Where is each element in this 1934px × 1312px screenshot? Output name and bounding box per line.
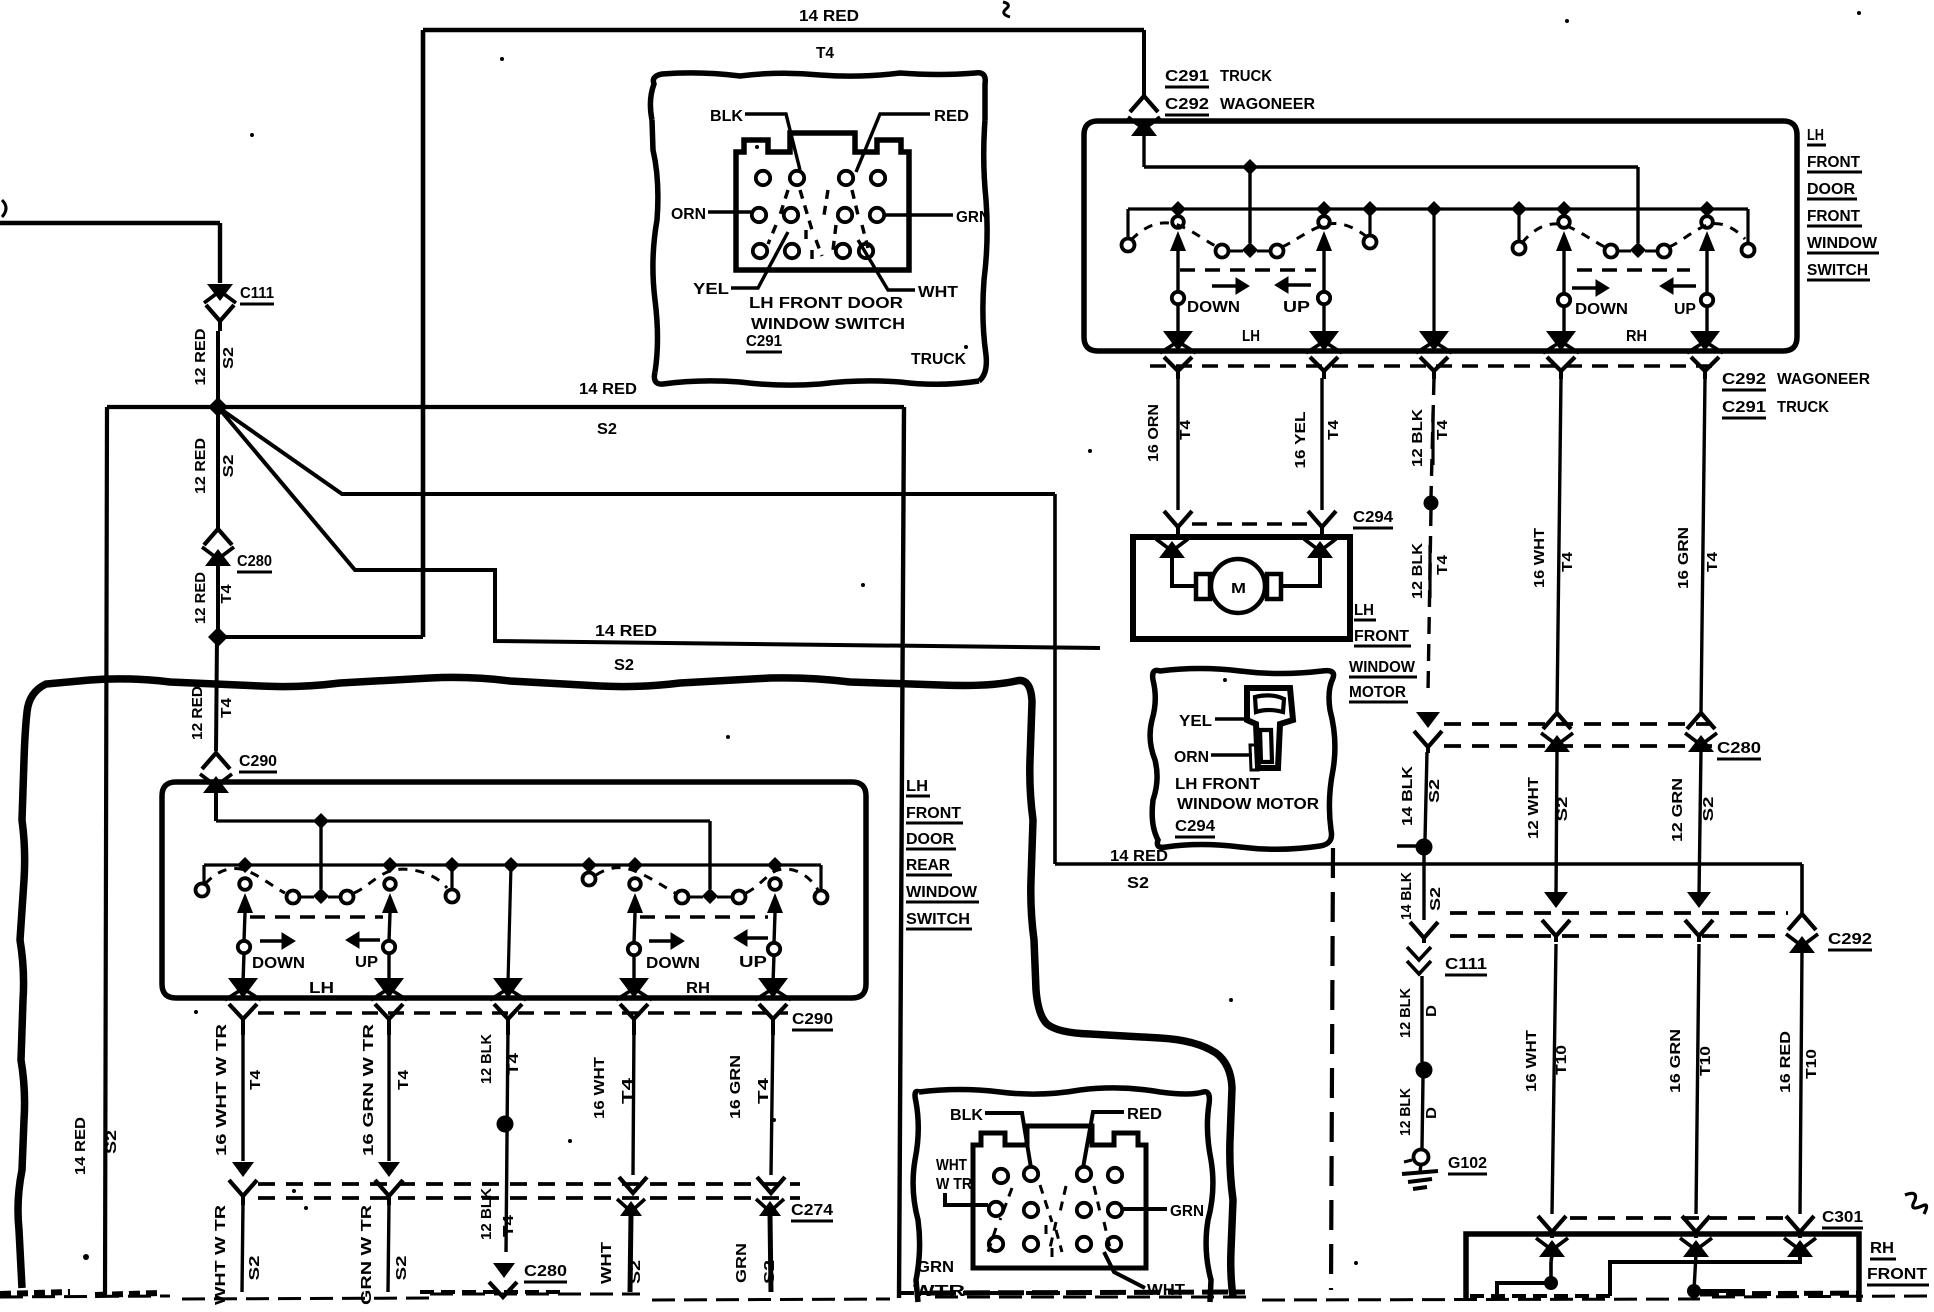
svg-text:WINDOW: WINDOW [906, 884, 978, 901]
svg-text:S2: S2 [220, 455, 237, 478]
pin circles row 2 [752, 208, 766, 222]
RH DOWN direction arrow [1572, 286, 1598, 289]
svg-text:LH: LH [1807, 127, 1824, 144]
svg-text:S2: S2 [614, 657, 634, 674]
LH DOWN direction arrow [1212, 284, 1238, 287]
svg-text:RH: RH [1870, 1240, 1894, 1257]
wire 14 RED horizontal bus y=407 [107, 405, 904, 409]
svg-text:GRN: GRN [956, 209, 990, 226]
svg-text:14 RED: 14 RED [1110, 848, 1168, 865]
dashed travel line LH [1180, 268, 1316, 271]
splice dot on 12 BLK (rear) [497, 1116, 514, 1133]
connector C274 arrow up (WHT) [620, 1201, 642, 1216]
center output wire 12 BLK (rear) [508, 865, 511, 983]
motor wiring left [1172, 555, 1196, 586]
connector C280 (left) female chevron [204, 529, 232, 545]
wire 16 WHT T10 [1552, 944, 1556, 1214]
wiper dashed arc LH right [1282, 223, 1367, 247]
wire 14 BLK S2 crossing 14 RED line [1422, 855, 1425, 920]
LH outer right stub contact [1368, 209, 1371, 235]
svg-text:UP: UP [355, 954, 378, 971]
svg-text:C290: C290 [792, 1011, 833, 1028]
wire 12 RED S2 segment [216, 331, 220, 402]
svg-text:16 GRN: 16 GRN [1675, 527, 1692, 589]
svg-text:T4: T4 [619, 1077, 636, 1104]
svg-text:C291: C291 [1722, 399, 1766, 416]
connector C111 (top left) female chevron [206, 305, 234, 321]
squiggle mark top [1003, 2, 1010, 17]
connector C111 (top left) male arrow [207, 284, 233, 301]
dashed connector row below box [1150, 364, 1720, 368]
junction dot on bus [1242, 159, 1258, 175]
svg-text:UP: UP [739, 954, 767, 971]
wire 12 BLK T4 center (rear) [506, 1025, 508, 1252]
svg-text:16 WHT: 16 WHT [1523, 1030, 1540, 1092]
RH rocker center contacts (rear) [676, 891, 689, 904]
svg-text:12 BLK: 12 BLK [478, 1034, 495, 1084]
wire 16 GRN W TR [387, 1025, 390, 1161]
svg-text:FRONT: FRONT [1354, 628, 1409, 645]
svg-text:SWITCH: SWITCH [1807, 262, 1868, 279]
svg-text:RED: RED [934, 108, 969, 125]
svg-text:DOWN: DOWN [252, 955, 305, 972]
wire 16 GRN T4 (rear RH up) [771, 1025, 773, 1175]
svg-text:16 GRN: 16 GRN [1667, 1029, 1684, 1093]
connector C290 female chevron [202, 753, 230, 769]
switch supply bus [1144, 165, 1638, 168]
svg-text:C294: C294 [1353, 509, 1393, 526]
svg-text:ORN: ORN [671, 206, 706, 223]
svg-text:FRONT: FRONT [1867, 1266, 1927, 1283]
LH rocker center post [1248, 167, 1251, 243]
svg-text:C292: C292 [1722, 371, 1766, 388]
rear switch supply bus [216, 819, 710, 822]
splice junction at top 14 RED riser [208, 627, 228, 647]
motor wiring right [1281, 555, 1320, 586]
wire 14 RED riser from top [421, 30, 426, 637]
connector C292 arrow down on 12 WHT [1544, 892, 1568, 908]
svg-text:T4: T4 [1559, 551, 1576, 572]
connector C301 chevrons [1538, 1216, 1566, 1232]
svg-text:FRONT: FRONT [906, 805, 961, 822]
svg-text:C280: C280 [524, 1263, 567, 1280]
svg-text:C274: C274 [791, 1202, 833, 1219]
splice dot on 12 BLK [1424, 496, 1439, 511]
wire 12 RED S2 segment below junction [216, 407, 220, 528]
LH UP post contact and arrow [1318, 216, 1330, 228]
wavy border box bottom connector [913, 1091, 920, 1302]
dashed rows C292 [1450, 911, 1788, 915]
wire 12 RED T4 to C290 [216, 637, 217, 751]
wire 14 RED top horizontal [423, 28, 1144, 33]
wire 14 RED S2 left vertical drop [105, 407, 107, 1297]
svg-text:TRUCK: TRUCK [1220, 68, 1272, 85]
RH UP circle contact [1701, 294, 1713, 306]
svg-text:S2: S2 [1700, 797, 1717, 822]
wire 12 BLK dashed from center output [1431, 378, 1434, 497]
svg-text:C291: C291 [1165, 68, 1209, 85]
row end stub right with contact [1746, 209, 1749, 243]
wire WHT W TR S2 below C274 [242, 1203, 243, 1292]
svg-text:T4: T4 [816, 45, 834, 62]
svg-text:16 WHT: 16 WHT [1531, 528, 1548, 588]
wiper dashed arc LH right (rear) [354, 869, 447, 893]
wire 14 RED S2 vertical x=1055 [1053, 494, 1057, 864]
svg-text:T4: T4 [1434, 554, 1451, 575]
motor brush left [1196, 574, 1210, 599]
svg-text:YEL: YEL [693, 281, 729, 298]
wire 12 BLK D segment [1420, 976, 1423, 1062]
motor armature circle M [1211, 559, 1265, 613]
svg-text:12 BLK: 12 BLK [1397, 988, 1414, 1038]
svg-text:LH FRONT: LH FRONT [1175, 776, 1260, 793]
connector C274 chevron (GRN) [375, 1180, 403, 1196]
RH rocker center contacts [1605, 245, 1618, 258]
wire 12 RED feed from left edge [0, 221, 220, 225]
connector row C290 chevrons below rear box [229, 1004, 257, 1019]
connector face body (bottom) [973, 1126, 1146, 1268]
LH rocker center contacts (rear) [287, 891, 300, 904]
junction dot on rear bus [313, 813, 329, 829]
wiper dashed arc RH left (rear) [596, 868, 675, 893]
svg-text:S2: S2 [597, 421, 617, 438]
svg-text:WINDOW SWITCH: WINDOW SWITCH [751, 316, 905, 333]
LH UP circle contact [1318, 292, 1330, 304]
connector C280 arrow down on 12 BLK [1416, 712, 1440, 728]
RH UP circle contact (rear) [768, 943, 780, 955]
RH DOWN post contact and arrow [1558, 216, 1570, 228]
svg-text:T4: T4 [505, 1052, 522, 1075]
pin circles row 1 [756, 171, 770, 185]
svg-text:BLK: BLK [950, 1107, 983, 1124]
connector C280 bottom arrow and chevron [493, 1263, 515, 1278]
svg-text:12 GRN: 12 GRN [1669, 778, 1686, 842]
svg-text:T4: T4 [218, 584, 235, 604]
svg-text:GRN W TR: GRN W TR [358, 1205, 375, 1305]
svg-text:16 GRN W TR: 16 GRN W TR [360, 1024, 377, 1156]
svg-text:C290: C290 [239, 753, 277, 770]
svg-text:WHT W TR: WHT W TR [212, 1205, 229, 1305]
RH DOWN circle contact [1558, 294, 1570, 306]
connector C274 chevron (16 GRN) [757, 1177, 785, 1193]
svg-text:WINDOW: WINDOW [1807, 235, 1878, 252]
motor plug drawing [1247, 688, 1293, 768]
wire 16 YEL T4 [1320, 378, 1323, 510]
svg-text:T4: T4 [500, 1214, 517, 1237]
connector C280 chevron on 16 WHT wire [1543, 713, 1571, 729]
row junction dots [1170, 201, 1186, 217]
dashed travel line LH (rear) [250, 915, 383, 918]
svg-text:S2: S2 [103, 1130, 120, 1154]
wire 12 BLK dashed continues [1428, 509, 1431, 692]
output arrows through rear box bottom [228, 978, 258, 998]
splice junction S2 [208, 397, 228, 417]
svg-text:REAR: REAR [906, 857, 950, 874]
arrows into RH front box [1539, 1240, 1565, 1257]
svg-text:ORN: ORN [1174, 749, 1209, 766]
dashed connector row C290 [258, 1011, 788, 1015]
svg-text:S2: S2 [246, 1256, 263, 1281]
svg-text:T4: T4 [1177, 419, 1194, 440]
svg-text:T4: T4 [1325, 419, 1342, 440]
svg-text:12 BLK: 12 BLK [1409, 543, 1426, 599]
svg-text:RH: RH [1626, 328, 1647, 345]
wire 16 WHT W TR [241, 1025, 244, 1161]
LH DOWN post contact and arrow [1172, 216, 1184, 228]
svg-text:C111: C111 [240, 285, 274, 302]
svg-text:WINDOW MOTOR: WINDOW MOTOR [1177, 796, 1319, 813]
svg-text:SWITCH: SWITCH [906, 911, 970, 928]
wire bundle dashes inside bottom connector [988, 1185, 1110, 1260]
svg-text:T10: T10 [1553, 1045, 1570, 1075]
svg-text:14 RED: 14 RED [72, 1117, 89, 1175]
LH rocker center post (rear) [319, 821, 322, 889]
svg-text:WAGONEER: WAGONEER [1220, 96, 1315, 113]
wire 12 BLK D to ground [1422, 1078, 1423, 1148]
wire 14 RED S2 horizontal y=864 [1055, 862, 1802, 866]
RH UP direction arrow [1671, 284, 1696, 287]
dashed rows C280 [1444, 722, 1712, 726]
svg-text:UP: UP [1283, 299, 1310, 316]
pin circles row 2 (bottom connector) [989, 1202, 1003, 1216]
svg-text:WHT: WHT [598, 1242, 615, 1284]
svg-text:14 RED: 14 RED [595, 623, 657, 640]
wire 14 RED S2 drop to C292 [1800, 864, 1804, 913]
male arrow entering switch box [1131, 119, 1157, 136]
svg-text:14 BLK: 14 BLK [1399, 766, 1416, 826]
svg-text:FRONT: FRONT [1807, 208, 1860, 225]
svg-text:DOOR: DOOR [906, 831, 954, 848]
svg-text:S2: S2 [1554, 797, 1571, 822]
wire 16 RED T10 [1800, 950, 1802, 1214]
svg-text:S2: S2 [761, 1260, 778, 1284]
svg-text:WAGONEER: WAGONEER [1777, 371, 1870, 388]
svg-text:T10: T10 [1697, 1046, 1714, 1076]
svg-text:S2: S2 [627, 1260, 644, 1284]
svg-text:C280: C280 [237, 553, 272, 570]
svg-text:16 RED: 16 RED [1777, 1031, 1794, 1093]
connector face C291 body [736, 133, 909, 270]
svg-text:M: M [1231, 580, 1246, 597]
dashed travel line RH (rear) [640, 915, 768, 918]
svg-text:LH: LH [906, 778, 928, 795]
scan noise bottom edge [0, 1294, 1930, 1300]
svg-text:14 BLK: 14 BLK [1398, 872, 1415, 920]
svg-text:C294: C294 [1175, 818, 1215, 835]
scan noise heavy blobs [0, 1292, 160, 1295]
svg-text:WHT: WHT [936, 1157, 967, 1174]
svg-text:12 BLK: 12 BLK [478, 1188, 495, 1240]
RH UP post contact and arrow (rear) [769, 878, 781, 890]
motor brush right [1267, 574, 1281, 599]
svg-text:12 WHT: 12 WHT [1525, 777, 1542, 839]
row end stub right with contact (rear) [819, 865, 822, 890]
svg-text:12 RED: 12 RED [192, 572, 209, 624]
row end stub left with contact [202, 865, 205, 883]
LH DOWN post contact and arrow (rear) [239, 878, 251, 890]
splice dot on 14 BLK [1397, 844, 1416, 847]
svg-text:C301: C301 [1822, 1209, 1863, 1226]
LH UP post contact and arrow (rear) [384, 878, 396, 890]
switch pin row [1128, 207, 1748, 210]
svg-text:DOOR: DOOR [1807, 181, 1855, 198]
wire diagonal branch to 14 RED S2 line [222, 410, 1055, 494]
svg-text:MOTOR: MOTOR [1349, 684, 1406, 701]
svg-text:W TR: W TR [936, 1176, 972, 1193]
svg-text:LH: LH [309, 980, 334, 997]
wire 16 WHT T4 (rear RH down) [633, 1025, 634, 1175]
internal wiring RH front box [1551, 1254, 1552, 1262]
dashed travel line RH [1577, 268, 1690, 271]
svg-text:DOWN: DOWN [646, 955, 700, 972]
svg-text:BLK: BLK [710, 108, 743, 125]
svg-text:D: D [1423, 1005, 1440, 1017]
connector C280 chevron on 16 GRN wire [1687, 713, 1715, 729]
svg-text:16 WHT: 16 WHT [591, 1057, 608, 1119]
thick wavy routed wire [18, 677, 1233, 1297]
LH UP circle contact (rear) [383, 941, 395, 953]
svg-text:12 RED: 12 RED [192, 438, 209, 494]
svg-text:T4: T4 [395, 1069, 412, 1090]
svg-text:S2: S2 [1427, 887, 1444, 911]
wire 16 GRN T4 long [1701, 378, 1705, 712]
wiper dashed arc RH left [1522, 224, 1605, 247]
svg-text:T4: T4 [1434, 419, 1451, 440]
svg-text:GRN: GRN [1170, 1203, 1204, 1220]
LH UP direction arrow (rear) [357, 938, 380, 941]
wire long vertical from 14 RED bus to bottom [899, 407, 904, 1298]
svg-text:UP: UP [1674, 301, 1696, 318]
wire 16 WHT T4 long [1557, 378, 1561, 712]
wire junction to riser x=423 [218, 635, 423, 639]
svg-text:C292: C292 [1828, 931, 1872, 948]
svg-text:S2: S2 [393, 1256, 410, 1281]
LH rocker center contacts [1216, 245, 1229, 258]
connector C280 arrow up on 12 WHT [1544, 735, 1570, 752]
dashed wire from motor area x=1332 [1331, 848, 1333, 1290]
pin circles row 3 (bottom connector) [989, 1237, 1003, 1251]
RH DOWN post contact and arrow (rear) [629, 878, 641, 890]
LH outer right stub contact (rear) [450, 865, 453, 889]
svg-text:DOWN: DOWN [1187, 299, 1240, 316]
dashed row C294 [1192, 522, 1310, 526]
dashed rows C274 [258, 1182, 800, 1186]
wire 16 ORN T4 [1176, 378, 1179, 510]
RH UP direction arrow (rear) [745, 936, 768, 939]
center output wire 12 BLK inside box [1432, 209, 1435, 337]
svg-text:DOWN: DOWN [1575, 301, 1628, 318]
svg-text:16 YEL: 16 YEL [1292, 412, 1309, 469]
dashed row C301 [1570, 1216, 1786, 1220]
svg-text:12 RED: 12 RED [192, 328, 209, 385]
connector C292 chevron on 14 RED drop [1788, 914, 1816, 930]
svg-text:16 WHT W TR: 16 WHT W TR [213, 1024, 230, 1156]
RH outer left stub contact (rear) [587, 865, 590, 872]
wiper dashed arc RH right (rear) [746, 869, 818, 893]
connector C292 arrow down on 12 GRN [1687, 892, 1711, 908]
wire 14 RED drop into switch, female chevron C291/C292 [1142, 30, 1146, 96]
svg-text:TRUCK: TRUCK [1777, 399, 1829, 416]
wavy border box LH front window motor C294 [1150, 669, 1335, 850]
svg-text:C111: C111 [1445, 956, 1487, 973]
svg-text:T4: T4 [218, 697, 235, 718]
svg-text:C292: C292 [1165, 96, 1209, 113]
connector C294 chevrons [1164, 511, 1192, 527]
output arrows through box bottom [1163, 331, 1193, 351]
connector C292 chevron on 16 GRN [1685, 920, 1713, 936]
RH rocker center post (rear) [708, 821, 711, 889]
label bar [1431, 412, 1434, 465]
svg-text:RED: RED [1127, 1106, 1162, 1123]
connector C280 chevron on 12 BLK [1414, 731, 1442, 747]
svg-text:S2: S2 [1426, 779, 1443, 803]
svg-text:S2: S2 [1127, 875, 1149, 892]
wavy border box LH front door window switch C291 TRUCK [650, 73, 985, 120]
RH UP post contact and arrow [1701, 216, 1713, 228]
svg-text:12 BLK: 12 BLK [1397, 1088, 1414, 1136]
wiper dashed arc LH left (rear) [205, 869, 285, 893]
connector C292 arrow up on 16 RED [1789, 936, 1815, 953]
svg-text:14 RED: 14 RED [799, 8, 859, 25]
splice dot on 12 BLK D [1416, 1062, 1433, 1079]
box RH front [1466, 1234, 1859, 1302]
svg-text:12 BLK: 12 BLK [1409, 409, 1426, 467]
svg-text:T4: T4 [1704, 551, 1721, 572]
svg-text:YEL: YEL [1179, 713, 1212, 730]
label bar [1428, 545, 1431, 598]
rear switch pin row [204, 863, 821, 866]
wire bundle dashes inside C291 [768, 190, 868, 262]
RH DOWN direction arrow (rear) [649, 939, 673, 942]
connector C292 chevron on 16 WHT [1542, 920, 1570, 936]
svg-text:LH: LH [1354, 602, 1374, 619]
svg-text:C291: C291 [746, 333, 782, 350]
svg-text:WHT: WHT [918, 284, 958, 301]
connector C111 double chevrons [1407, 947, 1431, 960]
LH DOWN circle contact (rear) [238, 941, 250, 953]
svg-text:S2: S2 [220, 347, 237, 369]
connector C111 chevron [1410, 922, 1438, 938]
connector C274 arrow up (GRN) [759, 1201, 781, 1216]
svg-text:T10: T10 [1803, 1049, 1820, 1079]
connector C280 arrow up on 12 GRN [1688, 735, 1714, 752]
svg-text:16 GRN: 16 GRN [727, 1055, 744, 1119]
svg-text:LH FRONT DOOR: LH FRONT DOOR [749, 295, 904, 312]
wire 16 GRN T10 [1696, 944, 1699, 1214]
svg-text:14 RED: 14 RED [579, 381, 637, 398]
connector C280 (left) male arrow up [205, 549, 231, 566]
pin circles row 3 [753, 244, 767, 258]
scan speckles [250, 133, 254, 137]
ground symbol G102 [1404, 1160, 1412, 1162]
svg-text:C280: C280 [1717, 740, 1761, 757]
wire 14 BLK S2 segment [1425, 752, 1427, 840]
connector C274 chevron (16 WHT) [619, 1177, 647, 1193]
svg-text:FRONT: FRONT [1807, 154, 1860, 171]
wiper dashed arc LH left [1131, 223, 1218, 247]
svg-text:GRN: GRN [733, 1243, 750, 1283]
motor feed arrows into box [1159, 541, 1185, 558]
LH UP direction arrow [1286, 283, 1311, 286]
squiggle mark bottom right [1905, 1193, 1927, 1214]
svg-text:12 RED: 12 RED [189, 686, 206, 740]
svg-text:T4: T4 [247, 1069, 264, 1090]
switch box LH front door front window switch [1084, 121, 1797, 351]
motor box LH front window motor [1133, 537, 1350, 639]
svg-text:G102: G102 [1448, 1155, 1487, 1172]
row end stub left with contact [1126, 209, 1129, 238]
connector C274 chevron (WHT) [229, 1180, 257, 1196]
